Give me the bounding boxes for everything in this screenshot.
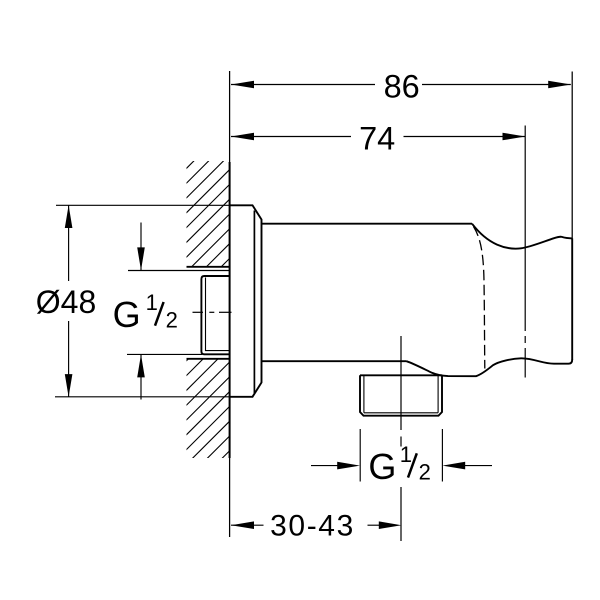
escutcheon plate outline bbox=[230, 205, 262, 396]
svg-text:G: G bbox=[113, 294, 141, 335]
svg-text:86: 86 bbox=[384, 68, 420, 104]
dimension socket G1/2 arrows bbox=[140, 223, 142, 400]
svg-text:1: 1 bbox=[146, 290, 158, 315]
wall hatch lower section bbox=[0, 150, 545, 480]
outlet thread outer outline bbox=[360, 375, 442, 415]
wall hole top boundary bbox=[187, 266, 230, 268]
inlet socket outline bbox=[201, 276, 229, 354]
svg-text:Ø48: Ø48 bbox=[36, 284, 96, 320]
outlet centerline bbox=[400, 336, 402, 430]
dimension 86 bbox=[231, 84, 571, 86]
extension lines socket bbox=[128, 270, 230, 272]
holder right face bbox=[571, 238, 573, 360]
dimension 74 bbox=[231, 136, 525, 138]
extension line D48 top bbox=[56, 204, 230, 206]
outlet thread top edge bbox=[360, 374, 442, 376]
extension line right (86) bbox=[571, 72, 573, 239]
dimension D48 bbox=[68, 205, 70, 396]
wall hatch upper section bbox=[0, 150, 545, 480]
svg-text:74: 74 bbox=[359, 121, 395, 157]
holder body top edge bbox=[262, 223, 473, 225]
svg-text:1: 1 bbox=[400, 442, 412, 467]
holder body top S-curve bbox=[472, 224, 572, 249]
svg-text:G: G bbox=[368, 446, 396, 487]
label G 1/2 (outlet) bbox=[368, 442, 430, 487]
wall hole bottom boundary bbox=[187, 358, 230, 360]
outlet thread root lines (thin) bbox=[363, 375, 365, 413]
extension lines outlet bbox=[359, 429, 361, 482]
holder centerline bbox=[524, 126, 526, 378]
escutcheon chamfer edge line bbox=[253, 211, 255, 394]
holder body bottom wave bbox=[407, 358, 573, 376]
svg-text:2: 2 bbox=[419, 460, 431, 485]
svg-text:2: 2 bbox=[166, 308, 178, 333]
dimension outlet G1/2 bbox=[311, 465, 492, 467]
extension line D48 bottom bbox=[55, 396, 253, 398]
inlet socket centerline bbox=[193, 311, 232, 313]
holder body bottom edge bbox=[262, 360, 407, 362]
svg-text:30-43: 30-43 bbox=[270, 509, 355, 542]
label G 1/2 (left) bbox=[113, 290, 178, 335]
inlet socket thread root lines (thin) bbox=[206, 278, 230, 351]
wall face line bbox=[229, 71, 231, 537]
dimension 30-43 bbox=[231, 524, 380, 526]
holder hidden edge (dashed) bbox=[474, 227, 485, 369]
